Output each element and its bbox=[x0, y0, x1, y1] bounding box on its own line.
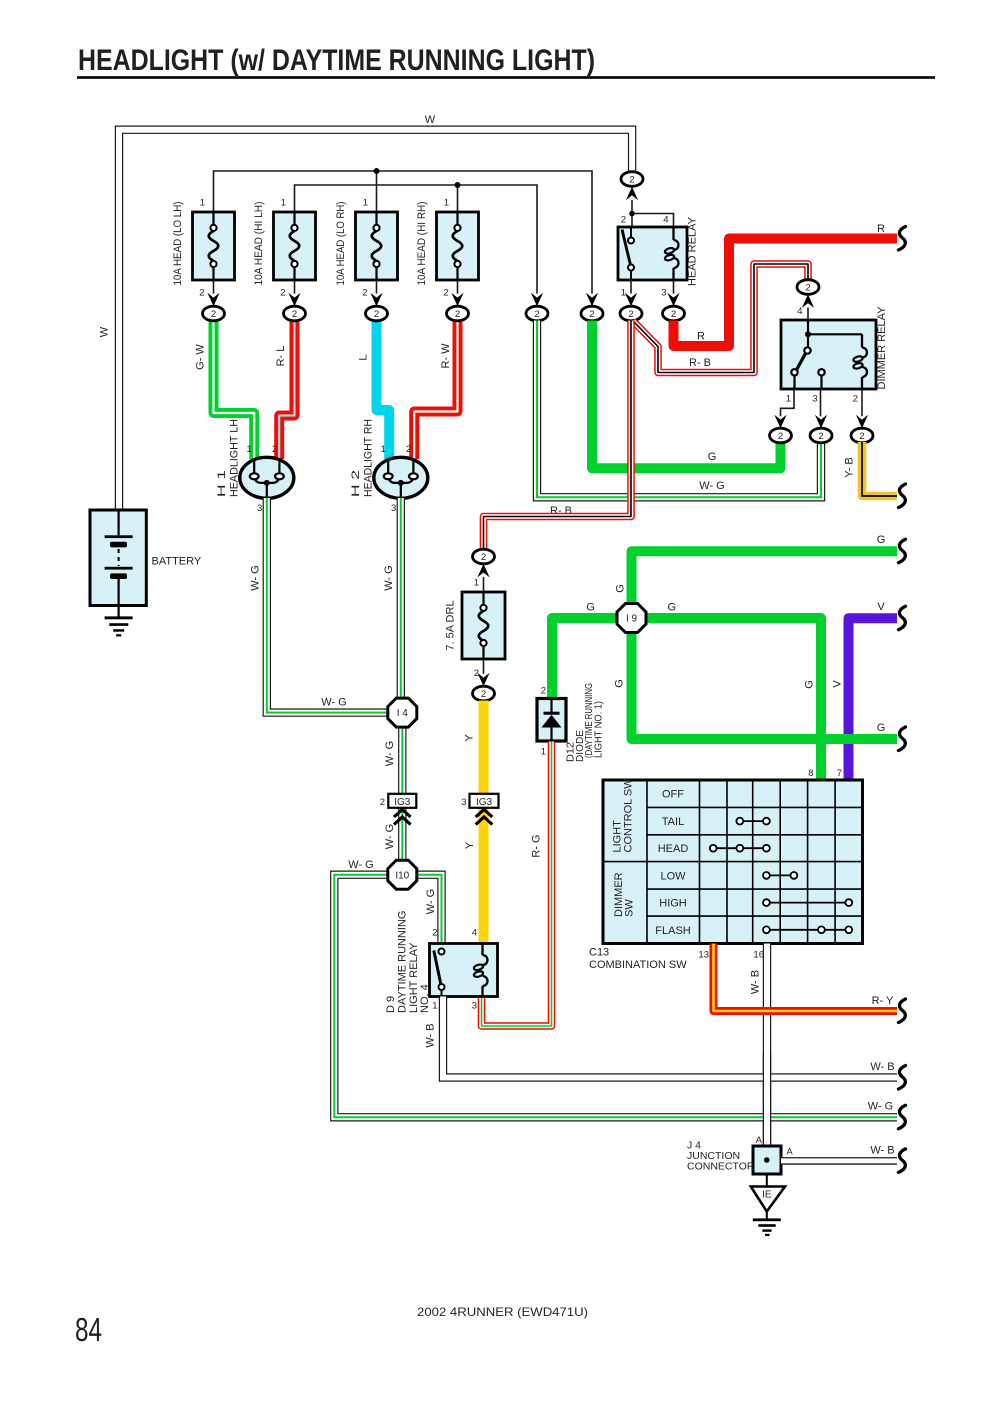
svg-text:1: 1 bbox=[200, 198, 205, 209]
svg-text:I 9: I 9 bbox=[626, 614, 638, 625]
svg-text:W- B: W- B bbox=[749, 970, 761, 994]
relay D9 daytime running light relay no4 bbox=[385, 911, 498, 1013]
svg-text:2: 2 bbox=[629, 174, 634, 185]
svg-text:2: 2 bbox=[380, 797, 385, 808]
svg-text:A: A bbox=[786, 1147, 793, 1158]
svg-text:2: 2 bbox=[292, 309, 297, 320]
svg-text:7: 7 bbox=[837, 768, 842, 779]
svg-text:W- B: W- B bbox=[870, 1145, 894, 1157]
svg-text:1: 1 bbox=[247, 444, 252, 455]
svg-text:W- G: W- G bbox=[383, 565, 395, 590]
label Y upper bbox=[464, 734, 476, 742]
label pin8 bbox=[808, 768, 813, 779]
svg-text:3: 3 bbox=[391, 503, 396, 514]
wire W-B J4 to right edge bbox=[781, 1157, 897, 1165]
node label W left bbox=[99, 326, 111, 337]
wire R-B head relay to dimmer relay bbox=[633, 264, 808, 373]
wire G I9 down rail bbox=[632, 632, 898, 739]
label pin13 bbox=[698, 950, 709, 961]
wire W-G H1 pin3 to I4 bbox=[267, 498, 388, 713]
label R-G bbox=[531, 834, 543, 857]
connector 2 DRL fuse top bbox=[473, 549, 495, 592]
label W-G bottom rail bbox=[868, 1101, 893, 1113]
label BATTERY bbox=[152, 556, 202, 568]
svg-text:2: 2 bbox=[671, 309, 676, 320]
svg-text:G: G bbox=[804, 680, 816, 689]
svg-text:2: 2 bbox=[374, 309, 379, 320]
break W-B J4 bbox=[899, 1149, 906, 1173]
svg-text:1: 1 bbox=[281, 198, 286, 209]
svg-text:H 2: H 2 bbox=[350, 470, 362, 497]
wire head relay feed stem bbox=[629, 200, 673, 227]
junction dot bus2/fuse4 bbox=[455, 182, 461, 188]
svg-text:I 4: I 4 bbox=[397, 708, 409, 719]
label C13 bbox=[589, 947, 687, 972]
ground battery bbox=[105, 606, 133, 637]
svg-text:V: V bbox=[877, 601, 885, 613]
connector 2 head relay pin1 bbox=[620, 293, 642, 321]
svg-text:10A HEAD (LO RH): 10A HEAD (LO RH) bbox=[335, 202, 347, 286]
label L bbox=[358, 354, 370, 360]
svg-text:2: 2 bbox=[778, 431, 783, 442]
connector 2 DRL fuse bottom bbox=[473, 659, 495, 701]
label W-G I4 bbox=[321, 697, 346, 709]
svg-text:2: 2 bbox=[541, 686, 546, 697]
wire bus HI fuses bbox=[295, 185, 538, 294]
wire dimmer pin1 stem bbox=[781, 389, 795, 416]
svg-text:3: 3 bbox=[661, 288, 666, 299]
svg-text:2: 2 bbox=[853, 394, 858, 405]
svg-text:SW: SW bbox=[624, 899, 636, 917]
svg-text:C13: C13 bbox=[589, 947, 609, 959]
svg-text:2: 2 bbox=[589, 309, 594, 320]
svg-text:R- G: R- G bbox=[531, 834, 543, 857]
label G bbox=[708, 451, 717, 463]
svg-text:Y: Y bbox=[464, 734, 476, 742]
svg-text:G: G bbox=[877, 534, 886, 546]
svg-text:HEAD RELAY: HEAD RELAY bbox=[687, 216, 699, 286]
wire R-B head relay to DRL fuse bbox=[484, 321, 632, 551]
switch C13 combination switch bbox=[603, 778, 863, 944]
svg-text:2002 4RUNNER (EWD471U): 2002 4RUNNER (EWD471U) bbox=[417, 1305, 588, 1319]
connector IG3 no2 bbox=[380, 794, 417, 825]
connector 2 dimmer pin1 bbox=[770, 415, 792, 443]
wire fuse3 feed bbox=[376, 171, 378, 213]
svg-text:G: G bbox=[668, 602, 677, 614]
wire fuse4 feed bbox=[457, 185, 459, 213]
connector 2 head relay top bbox=[621, 172, 643, 201]
break R-Y bbox=[899, 999, 906, 1023]
svg-text:W- G: W- G bbox=[348, 859, 373, 871]
svg-text:FLASH: FLASH bbox=[655, 925, 691, 937]
svg-text:R: R bbox=[697, 331, 705, 343]
label Y lower bbox=[464, 841, 476, 849]
relay HEAD RELAY bbox=[618, 215, 699, 299]
relay DIMMER RELAY bbox=[781, 306, 888, 390]
svg-text:2: 2 bbox=[805, 282, 810, 293]
label W-B pin1 bbox=[425, 1023, 437, 1047]
svg-text:2: 2 bbox=[534, 309, 539, 320]
wire R-W fuse4 to H2 pin2 bbox=[414, 321, 457, 460]
svg-text:1: 1 bbox=[444, 198, 449, 209]
svg-text:4: 4 bbox=[663, 215, 668, 226]
label W-G I10 left bbox=[348, 859, 373, 871]
svg-text:W- G: W- G bbox=[321, 697, 346, 709]
label pin7 bbox=[837, 768, 842, 779]
svg-text:2: 2 bbox=[432, 928, 437, 939]
label W-B pin16 bbox=[749, 970, 761, 994]
svg-text:2: 2 bbox=[481, 552, 486, 563]
svg-text:2: 2 bbox=[199, 288, 204, 299]
wire G dimmer pin1 to LO bus bbox=[592, 321, 781, 469]
wire G I9 riser to top rail bbox=[632, 551, 898, 604]
label W-G below I4 bbox=[384, 741, 396, 766]
svg-text:IE: IE bbox=[762, 1190, 772, 1201]
wire W-G IG3 to I10 bbox=[398, 808, 406, 861]
connector 2 dimmer pin2 bbox=[851, 415, 873, 443]
svg-text:IG3: IG3 bbox=[476, 797, 493, 808]
break V bbox=[899, 606, 906, 630]
svg-text:84: 84 bbox=[75, 1311, 102, 1348]
wire W-B pin16 to J4 bbox=[763, 944, 771, 1147]
battery bbox=[90, 510, 146, 606]
svg-text:4: 4 bbox=[797, 306, 802, 317]
svg-text:2: 2 bbox=[455, 309, 460, 320]
label R mid bbox=[697, 331, 705, 343]
svg-text:IG3: IG3 bbox=[394, 797, 411, 808]
connector IG3 no3 bbox=[461, 794, 498, 825]
svg-text:3: 3 bbox=[472, 1001, 477, 1012]
label R-W bbox=[440, 343, 452, 369]
svg-text:G: G bbox=[615, 584, 627, 593]
svg-text:3: 3 bbox=[461, 797, 466, 808]
wire bus LO fuses bbox=[214, 171, 593, 294]
svg-text:DAYTIME RUNNING: DAYTIME RUNNING bbox=[397, 911, 409, 1013]
connector 2 fuse3 bbox=[366, 293, 388, 321]
svg-text:W- G: W- G bbox=[249, 565, 261, 590]
svg-text:HEAD: HEAD bbox=[658, 843, 689, 855]
fuse 10A HEAD (HI RH) bbox=[416, 198, 479, 299]
label G right bbox=[668, 602, 677, 614]
wire Y-B dimmer pin2 bbox=[862, 442, 897, 496]
svg-text:16: 16 bbox=[753, 950, 764, 961]
svg-text:COMBINATION SW: COMBINATION SW bbox=[589, 959, 687, 971]
break Y-B bbox=[899, 484, 906, 508]
wire W-G I10 to D9 pin2 bbox=[416, 875, 441, 944]
svg-text:HEADLIGHT LH: HEADLIGHT LH bbox=[228, 419, 240, 497]
svg-text:LIGHT NO. 1): LIGHT NO. 1) bbox=[593, 701, 605, 758]
label W-G H2 bbox=[383, 565, 395, 590]
break W-G bottom bbox=[899, 1105, 906, 1129]
label W-B rail bbox=[870, 1061, 894, 1073]
svg-text:2: 2 bbox=[443, 288, 448, 299]
svg-text:W- G: W- G bbox=[868, 1101, 893, 1113]
label R-Y bbox=[872, 995, 894, 1007]
svg-text:2: 2 bbox=[859, 431, 864, 442]
svg-text:2: 2 bbox=[272, 444, 277, 455]
svg-text:1: 1 bbox=[621, 288, 626, 299]
junction connector J4 bbox=[753, 1135, 781, 1174]
svg-text:R: R bbox=[877, 223, 885, 235]
svg-text:OFF: OFF bbox=[662, 789, 684, 801]
svg-text:LOW: LOW bbox=[660, 870, 686, 882]
svg-text:R- W: R- W bbox=[440, 343, 452, 369]
label V vert bbox=[832, 680, 844, 688]
label W-B J4 bbox=[870, 1145, 894, 1157]
svg-text:NO. 4: NO. 4 bbox=[419, 984, 431, 1013]
wire Y DRL fuse to D9 relay bbox=[479, 701, 489, 944]
svg-text:HIGH: HIGH bbox=[659, 898, 687, 910]
svg-text:CONTROL SW: CONTROL SW bbox=[623, 778, 635, 853]
svg-text:W: W bbox=[99, 326, 111, 337]
svg-text:1: 1 bbox=[363, 198, 368, 209]
connector 2 fuse1 bbox=[203, 293, 225, 321]
wire W battery to head relay bbox=[119, 130, 632, 512]
svg-text:10A HEAD (LO LH): 10A HEAD (LO LH) bbox=[172, 202, 184, 286]
svg-text:W- G: W- G bbox=[384, 741, 396, 766]
svg-text:13: 13 bbox=[698, 950, 709, 961]
svg-text:BATTERY: BATTERY bbox=[152, 556, 202, 568]
wire dimmer pin3 stem bbox=[812, 389, 820, 416]
svg-text:Y- B: Y- B bbox=[844, 457, 856, 477]
node I10 bbox=[388, 860, 417, 889]
svg-text:1: 1 bbox=[432, 1001, 437, 1012]
svg-text:Y: Y bbox=[464, 841, 476, 849]
label G top rail bbox=[877, 534, 886, 546]
svg-text:G- W: G- W bbox=[195, 344, 207, 370]
label J4 junction connector bbox=[687, 1140, 755, 1173]
wire W-G H2 pin3 to I4 bbox=[397, 498, 405, 698]
svg-text:2: 2 bbox=[362, 288, 367, 299]
svg-text:W: W bbox=[425, 114, 436, 126]
svg-text:2: 2 bbox=[406, 444, 411, 455]
connector 2 HI bus bbox=[526, 293, 548, 321]
label A right bbox=[786, 1147, 793, 1158]
svg-text:G: G bbox=[614, 679, 626, 688]
svg-text:CONNECTOR: CONNECTOR bbox=[687, 1161, 755, 1173]
fuse 10A HEAD (LO LH) bbox=[172, 198, 235, 299]
svg-text:W- G: W- G bbox=[384, 824, 396, 849]
svg-text:2: 2 bbox=[280, 288, 285, 299]
label G pin8 bbox=[804, 680, 816, 689]
label W-G D9 pin2 bbox=[425, 889, 437, 914]
fuse 10A HEAD (LO RH) bbox=[335, 198, 398, 299]
svg-text:D 9: D 9 bbox=[385, 996, 397, 1013]
wire R-G diode to D9 pin3 bbox=[482, 742, 552, 1027]
node I4 bbox=[388, 698, 417, 727]
fuse 7.5A DRL bbox=[445, 592, 506, 659]
wire W-G I4 to IG3 bbox=[398, 727, 406, 794]
wire G-W fuse1 to H1 pin1 bbox=[214, 321, 255, 460]
svg-text:R- B: R- B bbox=[689, 357, 711, 369]
svg-text:R- L: R- L bbox=[275, 346, 287, 367]
break W-B rail bbox=[899, 1066, 906, 1090]
label Y-B bbox=[844, 457, 856, 477]
wire W-B pin16 overpass bbox=[763, 1052, 771, 1146]
wire R-Y pin13 bbox=[714, 944, 898, 1012]
wire G I9 left to diode bbox=[552, 618, 618, 697]
svg-text:W- G: W- G bbox=[425, 889, 437, 914]
connector 2 fuse2 bbox=[284, 293, 306, 321]
svg-text:1: 1 bbox=[541, 747, 546, 758]
svg-text:G: G bbox=[708, 451, 717, 463]
svg-text:8: 8 bbox=[808, 768, 813, 779]
svg-text:2: 2 bbox=[621, 215, 626, 226]
svg-text:W- G: W- G bbox=[699, 480, 724, 492]
node I9 bbox=[617, 604, 646, 633]
wire W-G dimmer pin3 to HI bus bbox=[537, 321, 821, 498]
label G riser bbox=[615, 584, 627, 593]
label pin16 bbox=[753, 950, 764, 961]
wire G I9 right to comb sw pin8 bbox=[645, 618, 821, 780]
svg-text:2: 2 bbox=[628, 309, 633, 320]
svg-text:W- B: W- B bbox=[425, 1023, 437, 1047]
svg-text:1: 1 bbox=[381, 444, 386, 455]
headlight H 1 HEADLIGHT LH bbox=[216, 419, 294, 514]
label W-G H1 bbox=[249, 565, 261, 590]
svg-text:I10: I10 bbox=[395, 870, 409, 881]
svg-text:R- Y: R- Y bbox=[872, 995, 894, 1007]
break G lower bbox=[899, 727, 906, 751]
svg-text:G: G bbox=[877, 722, 886, 734]
svg-text:3: 3 bbox=[812, 394, 817, 405]
wire W-G I10 left loop to right edge bbox=[334, 875, 897, 1118]
label G down bbox=[614, 679, 626, 688]
connector 2 dimmer pin4 bbox=[797, 280, 819, 320]
fuse 10A HEAD (HI LH) bbox=[253, 198, 316, 299]
node label W top bbox=[425, 114, 436, 126]
connector 2 dimmer pin3 bbox=[810, 415, 832, 443]
wire R head relay to right bbox=[674, 239, 898, 347]
label R-L bbox=[275, 346, 287, 367]
svg-text:10A HEAD (HI LH): 10A HEAD (HI LH) bbox=[253, 202, 265, 286]
svg-text:DIMMER RELAY: DIMMER RELAY bbox=[876, 306, 888, 390]
wire W-B D9 pin1 to right edge bbox=[443, 997, 897, 1078]
svg-text:10A HEAD (HI RH): 10A HEAD (HI RH) bbox=[416, 202, 428, 286]
svg-text:W- B: W- B bbox=[870, 1061, 894, 1073]
label R-B drl bbox=[550, 505, 572, 517]
svg-text:G: G bbox=[586, 602, 595, 614]
wire R-L fuse2 to H1 pin2 bbox=[279, 321, 294, 460]
svg-text:3: 3 bbox=[257, 503, 262, 514]
svg-text:V: V bbox=[832, 680, 844, 688]
break G top bbox=[899, 539, 906, 563]
ground IE bbox=[751, 1174, 785, 1236]
svg-text:1: 1 bbox=[786, 394, 791, 405]
svg-text:HEADLIGHT (w/ DAYTIME RUNNING: HEADLIGHT (w/ DAYTIME RUNNING LIGHT) bbox=[78, 44, 595, 77]
connector 2 LO bus bbox=[581, 293, 603, 321]
connector 2 fuse4 bbox=[447, 293, 469, 321]
svg-text:H 1: H 1 bbox=[216, 470, 228, 497]
label G lower rail bbox=[877, 722, 886, 734]
diode D12 bbox=[537, 683, 605, 762]
break R bbox=[899, 227, 906, 251]
svg-text:2: 2 bbox=[481, 689, 486, 700]
label G left bbox=[586, 602, 595, 614]
svg-text:2: 2 bbox=[211, 309, 216, 320]
svg-text:HEADLIGHT RH: HEADLIGHT RH bbox=[362, 419, 374, 497]
junction dot bus1/fuse3 bbox=[374, 168, 380, 174]
svg-text:A: A bbox=[756, 1135, 763, 1146]
svg-text:2: 2 bbox=[818, 431, 823, 442]
svg-text:1: 1 bbox=[474, 578, 479, 589]
svg-text:TAIL: TAIL bbox=[662, 816, 684, 828]
label R-B dimmer bbox=[689, 357, 711, 369]
wire L fuse3 to H2 pin1 bbox=[377, 321, 390, 460]
label W-G bbox=[699, 480, 724, 492]
label R right bbox=[877, 223, 885, 235]
svg-text:7. 5A DRL: 7. 5A DRL bbox=[445, 600, 457, 650]
label W-G above I10 bbox=[384, 824, 396, 849]
label G-W bbox=[195, 344, 207, 370]
wire V comb sw pin7 bbox=[849, 618, 898, 780]
connector 2 head relay pin3 bbox=[663, 293, 685, 321]
svg-text:4: 4 bbox=[472, 928, 477, 939]
wire dimmer pin2 stem bbox=[853, 389, 862, 416]
headlight H 2 HEADLIGHT RH bbox=[350, 419, 428, 514]
svg-text:L: L bbox=[358, 354, 370, 360]
label V right bbox=[877, 601, 885, 613]
